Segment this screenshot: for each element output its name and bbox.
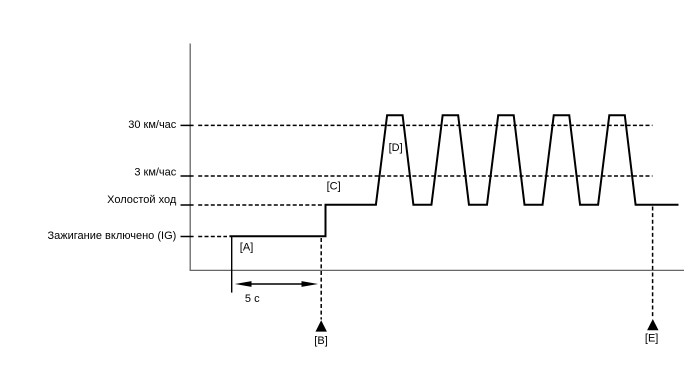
svg-text:Зажигание включено (IG): Зажигание включено (IG)	[48, 230, 177, 242]
svg-text:[B]: [B]	[314, 335, 327, 347]
marker dashed line [B]	[320, 238, 322, 320]
marker line [A] start of 5 s interval	[231, 236, 233, 292]
marker dashed line [E]	[652, 207, 654, 319]
tick Холостой ход	[181, 204, 194, 206]
dashed line Холостой ход	[198, 204, 323, 206]
tick Зажигание включено (IG)	[181, 236, 194, 238]
x-axis	[190, 269, 684, 271]
svg-text:[C]: [C]	[327, 181, 341, 193]
svg-text:Холостой ход: Холостой ход	[107, 194, 177, 206]
waveform speed trace	[230, 115, 677, 236]
marker triangle [B]	[316, 320, 327, 331]
dimension arrow 5 с	[235, 281, 318, 287]
svg-text:[E]: [E]	[645, 332, 658, 344]
dashed line 3 км/час	[198, 175, 652, 177]
y-axis	[189, 44, 191, 271]
svg-text:30 км/час: 30 км/час	[128, 119, 177, 131]
dashed line 30 км/час	[198, 124, 652, 126]
svg-text:3 км/час: 3 км/час	[134, 167, 176, 179]
marker triangle [E]	[647, 319, 658, 330]
tick 3 км/час	[181, 175, 194, 177]
svg-text:5 с: 5 с	[245, 293, 260, 305]
dashed line Зажигание включено (IG)	[198, 236, 227, 238]
svg-text:[D]: [D]	[389, 142, 403, 154]
svg-text:[A]: [A]	[240, 242, 253, 254]
tick 30 км/час	[181, 124, 194, 126]
